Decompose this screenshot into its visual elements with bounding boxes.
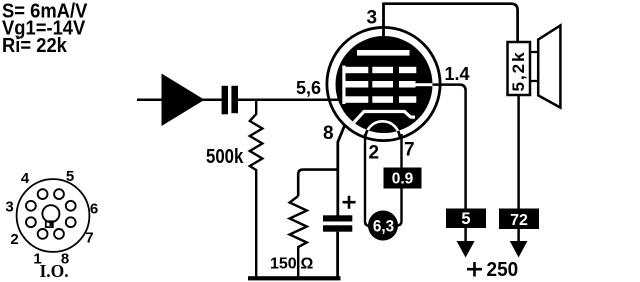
svg-text:0.9: 0.9: [392, 171, 414, 188]
svg-text:5: 5: [461, 210, 470, 228]
svg-text:I.O.: I.O.: [40, 261, 69, 281]
svg-text:Ri= 22k: Ri= 22k: [2, 35, 67, 57]
svg-text:5: 5: [66, 168, 74, 185]
svg-text:2: 2: [10, 231, 18, 248]
svg-text:1.4: 1.4: [445, 64, 470, 84]
svg-text:3: 3: [367, 8, 378, 29]
svg-text:Ω: Ω: [301, 256, 314, 273]
svg-text:6,3: 6,3: [373, 217, 394, 236]
svg-text:150: 150: [270, 256, 297, 273]
svg-text:5,2k: 5,2k: [509, 50, 528, 91]
svg-text:4: 4: [21, 170, 30, 187]
svg-text:7: 7: [85, 230, 93, 247]
svg-text:5,6: 5,6: [296, 78, 321, 98]
svg-text:7: 7: [404, 140, 415, 161]
svg-text:2: 2: [369, 143, 380, 164]
svg-text:8: 8: [323, 123, 334, 144]
svg-text:250: 250: [487, 259, 519, 282]
svg-text:72: 72: [510, 212, 528, 229]
svg-text:3: 3: [5, 199, 13, 216]
svg-text:6: 6: [90, 201, 98, 218]
svg-text:500k: 500k: [206, 145, 244, 168]
